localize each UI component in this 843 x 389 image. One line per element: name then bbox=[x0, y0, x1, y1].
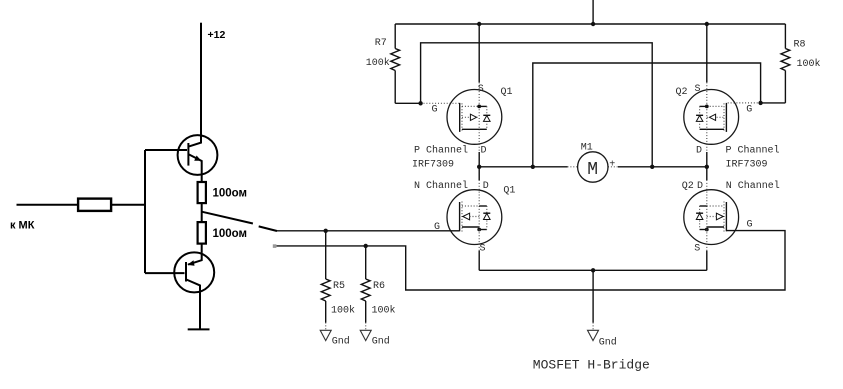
wire bbox=[201, 203, 203, 222]
wire D column left bbox=[478, 129, 480, 152]
wire S lead Q2P bbox=[706, 24, 708, 82]
resistor 100ом lower bbox=[198, 222, 206, 244]
resistor R5 100k bbox=[321, 231, 355, 323]
svg-text:100k: 100k bbox=[366, 57, 390, 69]
wire bbox=[111, 204, 145, 206]
svg-text:G: G bbox=[747, 220, 753, 231]
svg-text:R8: R8 bbox=[794, 40, 806, 51]
svg-text:S: S bbox=[478, 84, 484, 95]
svg-text:R5: R5 bbox=[333, 281, 345, 292]
svg-text:+: + bbox=[609, 159, 615, 170]
node R5 tee bbox=[324, 229, 328, 233]
wire R8 to gate Q2P bbox=[761, 102, 786, 104]
wire gate drive right (wire 2) bbox=[277, 231, 786, 290]
wire D column right bbox=[706, 129, 708, 152]
wire switch diagonal b bbox=[259, 226, 277, 231]
svg-text:Gnd: Gnd bbox=[599, 337, 617, 349]
wire cross-couple B (Q2P gate to left motor node) bbox=[533, 63, 761, 167]
wire 2 start blob bbox=[273, 244, 277, 248]
mosfet Q2 N-channel (mirrored) bbox=[684, 190, 739, 245]
svg-text:D: D bbox=[696, 146, 702, 157]
ground bar bbox=[188, 328, 210, 330]
ground Gnd (R6) bbox=[360, 323, 390, 348]
wire supply drop from top bbox=[592, 0, 594, 24]
svg-text:к МК: к МК bbox=[10, 220, 35, 232]
wire S lead Q1P bbox=[478, 24, 480, 82]
wire S lead Q1N to rail bbox=[478, 230, 480, 251]
wire bbox=[199, 292, 201, 329]
svg-text:P Channel: P Channel bbox=[414, 145, 468, 157]
svg-text:R6: R6 bbox=[373, 281, 385, 292]
wire switch diagonal a bbox=[202, 212, 253, 224]
mosfet Q1 N-channel bbox=[447, 190, 502, 245]
resistor R8 100k bbox=[781, 24, 821, 103]
svg-text:Gnd: Gnd bbox=[332, 336, 350, 348]
node R6 tee bbox=[364, 244, 368, 248]
svg-text:D: D bbox=[697, 181, 703, 192]
wire motor line bbox=[479, 166, 567, 168]
svg-text:P Channel: P Channel bbox=[726, 145, 780, 157]
svg-text:IRF7309: IRF7309 bbox=[412, 160, 454, 171]
svg-text:100ом: 100ом bbox=[213, 228, 248, 240]
svg-text:IRF7309: IRF7309 bbox=[726, 160, 768, 171]
svg-text:D: D bbox=[481, 146, 487, 157]
mosfet Q2 P-channel (mirrored) bbox=[684, 90, 739, 145]
wire source rail bbox=[479, 269, 707, 271]
svg-text:R7: R7 bbox=[375, 38, 387, 49]
svg-text:Gnd: Gnd bbox=[372, 336, 390, 348]
wire S lead Q2N to rail bbox=[706, 230, 708, 251]
resistor 100ом upper bbox=[198, 182, 206, 203]
wire +V rail bbox=[395, 23, 785, 25]
transistor Q-top NPN bbox=[145, 135, 217, 182]
svg-text:G: G bbox=[432, 105, 438, 116]
mosfet Q1 P-channel bbox=[447, 90, 502, 145]
svg-text:100k: 100k bbox=[797, 58, 821, 70]
svg-text:Q1: Q1 bbox=[503, 186, 515, 197]
svg-text:N Channel: N Channel bbox=[726, 180, 780, 192]
wire bbox=[201, 244, 203, 253]
ground Gnd (center) bbox=[588, 323, 617, 349]
node gate Q2P tee bbox=[758, 101, 762, 105]
resistor R7 100k bbox=[366, 24, 400, 103]
transistor Q-bottom PNP bbox=[145, 252, 214, 292]
wire gate drive left (wire 1) bbox=[277, 230, 460, 232]
svg-text:S: S bbox=[695, 84, 701, 95]
svg-text:MOSFET H-Bridge: MOSFET H-Bridge bbox=[533, 358, 650, 373]
svg-text:M: M bbox=[587, 160, 598, 180]
resistor R6 100k bbox=[361, 246, 395, 323]
motor M1 bbox=[568, 143, 619, 183]
svg-text:D: D bbox=[483, 181, 489, 192]
svg-text:G: G bbox=[746, 105, 752, 116]
wire cross-couple A (Q1P gate to right motor node) bbox=[421, 43, 653, 167]
svg-text:100ом: 100ом bbox=[213, 188, 248, 200]
svg-text:Q2: Q2 bbox=[676, 87, 688, 98]
wire R7 to gate Q1P bbox=[395, 102, 420, 104]
svg-text:Q2: Q2 bbox=[682, 181, 694, 192]
svg-text:Q1: Q1 bbox=[501, 87, 513, 98]
svg-text:M1: M1 bbox=[581, 143, 593, 154]
svg-text:S: S bbox=[480, 244, 486, 255]
node rail junctions bbox=[477, 22, 481, 26]
svg-text:N Channel: N Channel bbox=[414, 180, 468, 192]
svg-text:+12: +12 bbox=[208, 29, 226, 41]
node motor line junctions bbox=[477, 165, 481, 169]
ground Gnd (R5) bbox=[320, 323, 350, 348]
wire input from MCU bbox=[17, 204, 79, 206]
wire ground stem bbox=[592, 270, 594, 322]
node gate Q1P tee bbox=[418, 101, 422, 105]
svg-text:100k: 100k bbox=[331, 305, 355, 317]
node ground tee bbox=[591, 268, 595, 272]
resistor series base (к МК) bbox=[78, 199, 111, 211]
svg-text:S: S bbox=[694, 244, 700, 255]
svg-text:100k: 100k bbox=[372, 305, 396, 317]
node +12 supply wire bbox=[200, 23, 202, 136]
wire base bus vertical bbox=[144, 150, 146, 273]
